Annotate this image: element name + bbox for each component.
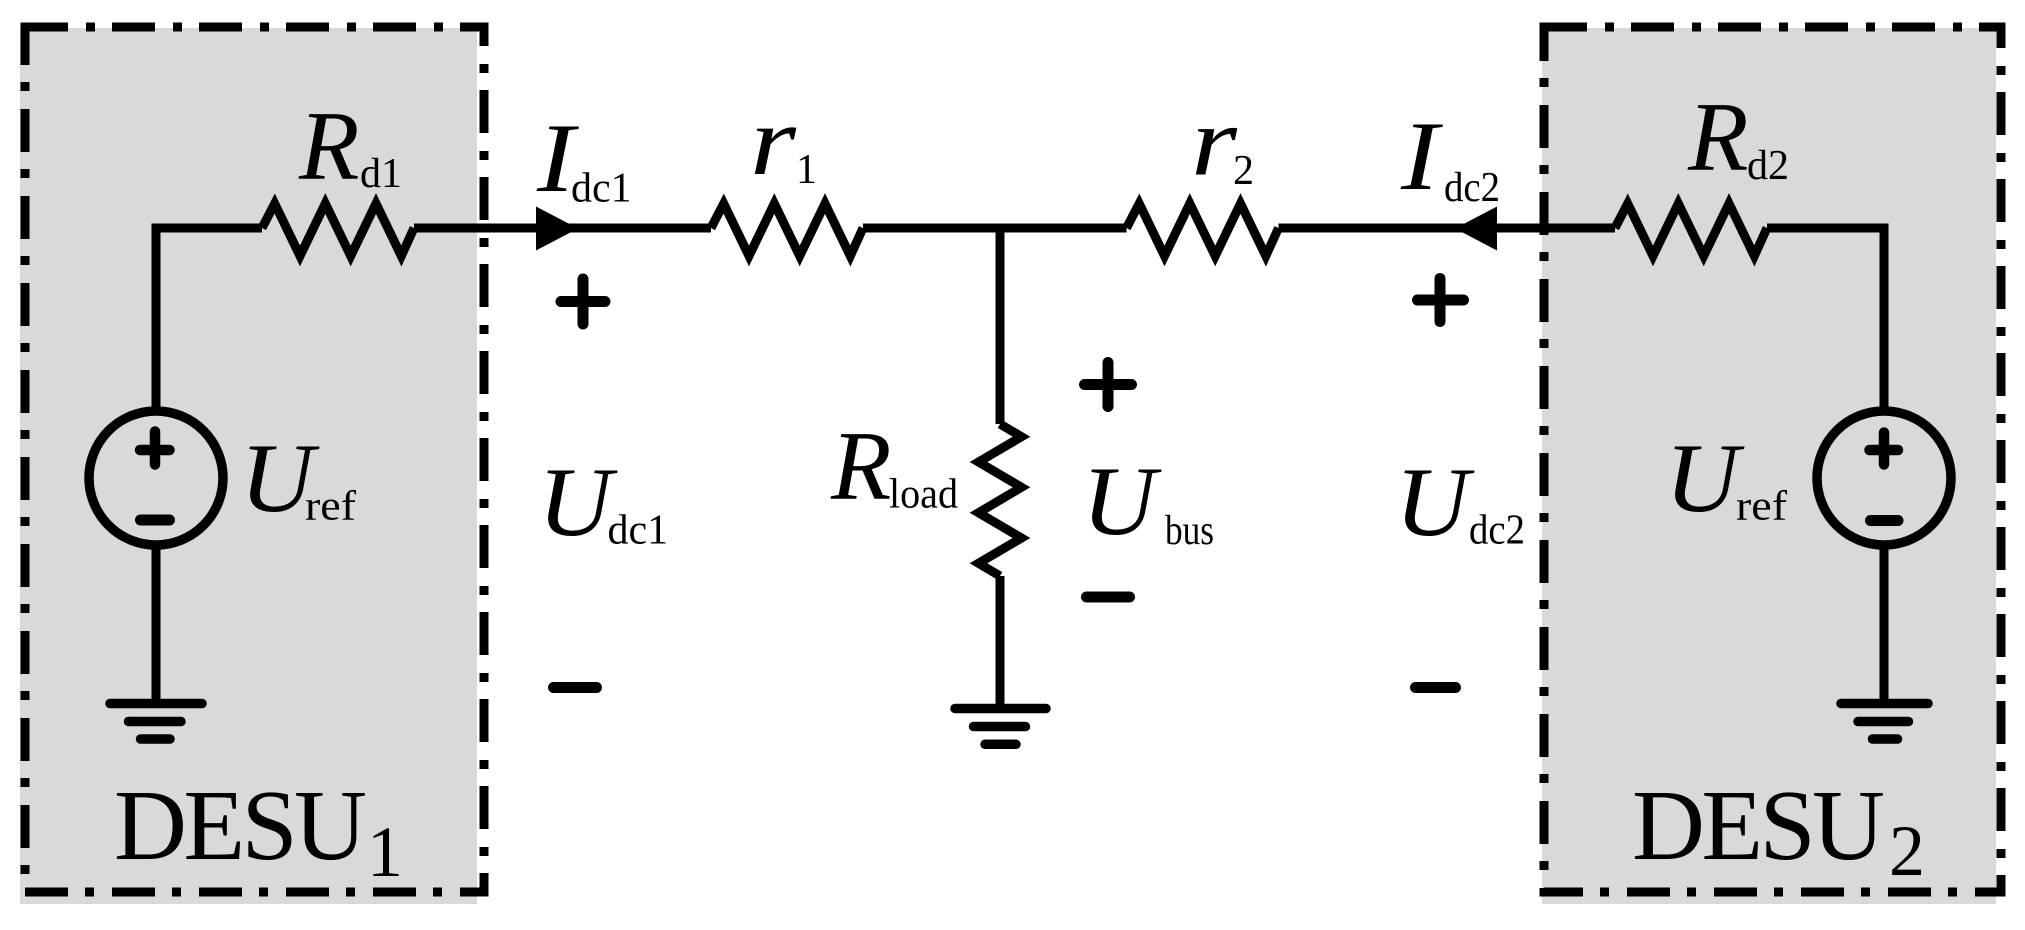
svg-text:U: U [1665,424,1745,533]
DESU1 box dash-dot border [25,27,484,892]
svg-text:ref: ref [1736,484,1787,530]
svg-text:2: 2 [1233,148,1254,194]
svg-text:ref: ref [305,484,356,530]
svg-text:d2: d2 [1747,143,1789,189]
svg-text:r: r [1191,88,1238,197]
wire: r1 to r2 through bus node [863,224,1127,233]
minus sign U_dc2 [1416,682,1456,693]
current arrow I_dc1 [536,207,578,251]
minus sign U_bus [1087,592,1130,603]
wire: left source bottom lead [152,545,161,704]
current arrow I_dc2 [1455,207,1497,251]
DESU2 box dash-dot border [1544,27,2001,892]
wire: R_d2 corner down to right source [1767,228,1884,413]
svg-text:R: R [830,412,891,521]
svg-text:1: 1 [796,147,817,193]
voltage source U_ref right (circle) [1817,411,1951,545]
plus sign U_bus [1085,363,1132,407]
plus inside right source [1870,433,1899,465]
wire: bus node down to R_load [996,228,1005,424]
resistor r1 [711,204,863,257]
svg-text:load: load [889,472,958,518]
DESU1 box fill [20,28,477,904]
svg-text:dc1: dc1 [608,508,669,554]
wire: left source top lead and corner to R_d1 [156,228,262,413]
voltage source U_ref left (circle) [89,411,223,545]
resistor R_load [979,424,1022,576]
svg-text:dc2: dc2 [1444,165,1500,211]
svg-text:2: 2 [1889,811,1925,891]
svg-text:DESU: DESU [1632,769,1885,881]
DESU2 box fill [1542,28,1996,904]
svg-text:bus: bus [1165,508,1214,554]
minus inside left source [141,515,170,526]
wire: R_load to middle ground [996,576,1005,709]
plus sign U_dc1 [561,279,605,324]
plus sign U_dc2 [1418,279,1464,322]
svg-text:r: r [750,87,797,196]
svg-text:DESU: DESU [114,769,367,881]
ground (middle, load) [955,709,1046,745]
svg-text:U: U [538,448,618,557]
svg-text:R: R [1687,83,1748,192]
minus inside right source [1871,515,1899,526]
svg-text:1: 1 [367,812,403,892]
plus inside left source [140,432,170,465]
wire: R_d1 to r1 [414,224,711,233]
minus sign U_dc1 [554,682,597,693]
ground (right, DESU2) [1841,704,1928,740]
svg-text:U: U [1395,448,1475,557]
svg-text:U: U [1082,447,1162,556]
svg-text:R: R [298,92,359,201]
ground (left, DESU1) [110,704,202,740]
svg-text:d1: d1 [360,151,402,197]
resistor r2 [1127,204,1279,257]
resistor R_d2 [1615,204,1767,257]
svg-text:dc1: dc1 [571,166,632,212]
wire: right source bottom lead [1880,545,1889,704]
resistor R_d1 [262,204,414,257]
svg-text:I: I [1400,102,1443,211]
svg-text:dc2: dc2 [1469,508,1525,554]
wire: r2 to R_d2 [1279,224,1616,233]
